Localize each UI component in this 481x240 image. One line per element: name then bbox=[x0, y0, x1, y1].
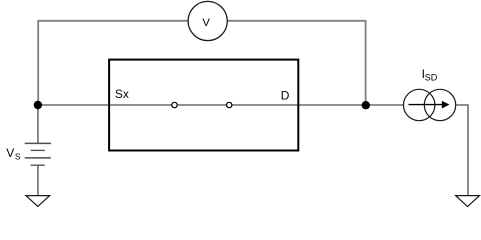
svg-text:Sx: Sx bbox=[115, 87, 129, 101]
svg-text:V: V bbox=[6, 146, 14, 160]
battery VS plate short 2 bbox=[31, 164, 45, 166]
wire top-left horizontal bbox=[38, 20, 188, 22]
wire top-right horizontal bbox=[227, 20, 365, 22]
svg-text:SD: SD bbox=[425, 72, 438, 82]
svg-text:S: S bbox=[15, 151, 21, 161]
box DUT bbox=[109, 60, 298, 151]
ground left bbox=[26, 196, 50, 207]
battery VS plate long 1 bbox=[25, 142, 51, 144]
wire current source to right ground corner bbox=[456, 105, 468, 196]
junction node right bbox=[362, 101, 370, 109]
wire left vertical bbox=[37, 20, 39, 105]
junction node left bbox=[34, 101, 42, 109]
svg-text:V: V bbox=[202, 17, 210, 29]
voltmeter V bbox=[188, 1, 227, 40]
current source ISD circle left bbox=[404, 89, 435, 120]
current source arrow bbox=[409, 104, 444, 106]
current source ISD circle right bbox=[424, 89, 455, 120]
terminal circle 2 bbox=[227, 102, 232, 107]
battery VS plate long 2 bbox=[25, 157, 51, 159]
svg-text:D: D bbox=[281, 89, 290, 103]
wire battery to ground bbox=[37, 165, 39, 195]
ground right bbox=[456, 196, 480, 207]
wire right vertical (top) bbox=[365, 20, 367, 105]
wire battery stub bbox=[37, 105, 39, 143]
battery VS plate short 1 bbox=[31, 149, 45, 151]
terminal circle 1 bbox=[172, 102, 177, 107]
wire main horizontal bbox=[38, 104, 403, 106]
